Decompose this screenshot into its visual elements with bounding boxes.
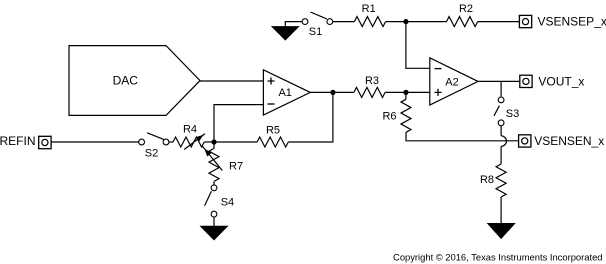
wire A1 output to R3 <box>310 91 354 93</box>
terminal VOUT_x <box>520 75 585 89</box>
junction node (A1 out) <box>330 90 335 95</box>
op-amp A2 <box>430 58 478 105</box>
wire R2 to VSENSEP_x terminal <box>478 21 520 23</box>
wire S3 to crossover hop <box>500 126 502 136</box>
wire DAC to A1 non-inverting input <box>200 80 263 82</box>
wire S2 to R4 <box>169 141 173 143</box>
resistor R6 <box>382 99 411 132</box>
wire R3 to A2 non-inverting input <box>385 91 430 93</box>
wire R5 to feedback junction <box>214 141 257 143</box>
resistor R4 (adjustable) <box>173 124 205 150</box>
svg-text:R5: R5 <box>266 125 280 137</box>
resistor R7 (adjustable) <box>202 146 243 181</box>
svg-text:Copyright © 2016, Texas Instru: Copyright © 2016, Texas Instruments Inco… <box>393 252 602 263</box>
terminal VSENSEN_x <box>519 134 605 148</box>
resistor R3 <box>354 75 385 97</box>
wire R4 to junction <box>204 141 214 143</box>
svg-text:R1: R1 <box>362 3 376 15</box>
wire A2 output to VOUT_x terminal <box>478 80 520 82</box>
ground (below R8) <box>488 224 514 239</box>
svg-text:S3: S3 <box>506 108 519 120</box>
DAC block <box>69 46 200 116</box>
wire VOUT branch down to S3 <box>500 81 502 97</box>
wire junction to R6 <box>405 92 407 99</box>
wire A1 out down to R5 <box>288 92 333 142</box>
wire S4 to ground <box>213 217 215 226</box>
svg-text:R8: R8 <box>480 174 494 186</box>
svg-text:VSENSEN_x: VSENSEN_x <box>534 134 604 148</box>
svg-text:R6: R6 <box>382 111 396 123</box>
svg-text:VOUT_x: VOUT_x <box>538 75 584 89</box>
junction node (R4/R5/R7/A1-) <box>211 139 216 144</box>
terminal REFIN <box>0 134 51 149</box>
wire hop (crossover) <box>501 136 506 147</box>
wire REFIN to S2 <box>51 141 139 143</box>
wire R6 to VSENSEN_x terminal <box>406 132 519 141</box>
junction node (R3/R6/A2+) <box>403 90 408 95</box>
svg-text:S2: S2 <box>145 148 158 160</box>
wire R8 to ground <box>500 197 502 224</box>
svg-text:VSENSEP_x: VSENSEP_x <box>538 14 606 28</box>
wire S1 to R1 <box>333 21 355 23</box>
ground (below S4) <box>201 226 227 239</box>
resistor R2 <box>447 3 478 26</box>
svg-text:R2: R2 <box>459 3 473 15</box>
svg-text:R3: R3 <box>365 75 379 87</box>
wire R7 to S4 <box>213 181 215 185</box>
svg-text:REFIN: REFIN <box>0 134 36 148</box>
switch S4 <box>205 185 235 217</box>
terminal VSENSEP_x <box>519 14 606 28</box>
resistor R5 <box>257 125 288 148</box>
junction node (R1/R2/A2-) <box>403 19 408 24</box>
svg-text:R7: R7 <box>229 161 243 173</box>
svg-text:S1: S1 <box>309 26 322 38</box>
op-amp A1 <box>263 70 310 115</box>
switch S3 <box>494 97 519 126</box>
svg-text:S4: S4 <box>221 197 234 209</box>
switch S1 <box>302 12 333 38</box>
resistor R1 <box>354 3 385 27</box>
resistor R8 <box>480 164 506 197</box>
switch S2 <box>139 133 169 160</box>
svg-text:R4: R4 <box>183 124 197 136</box>
wire hop to R8 <box>500 146 502 164</box>
ground (at S1) <box>272 22 302 40</box>
svg-text:A2: A2 <box>445 76 458 88</box>
wire R1 to R2 <box>386 21 447 23</box>
wire A1 inverting input to feedback node <box>214 105 263 142</box>
wire junction down to A2 inverting input <box>406 22 430 69</box>
wire junction to R7 <box>213 142 215 148</box>
svg-text:A1: A1 <box>278 87 291 99</box>
svg-text:DAC: DAC <box>113 73 139 87</box>
